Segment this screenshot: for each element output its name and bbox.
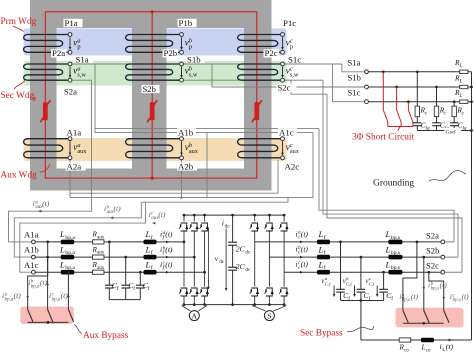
- DC bus top: [184, 214, 284, 216]
- under-core bus 2: [70, 197, 313, 199]
- terminal P2c: [281, 50, 285, 54]
- svg-text:Gnd: Gnd: [446, 130, 456, 136]
- IGBT A top 3: [201, 222, 210, 232]
- prm leader: [13, 26, 24, 32]
- sec bypass tap c: [427, 271, 430, 274]
- svg-text:3Φ Short Circuit: 3Φ Short Circuit: [352, 133, 414, 143]
- svg-text:A2a: A2a: [67, 162, 82, 172]
- S2 riser b: [323, 80, 458, 257]
- svg-text:L: L: [421, 343, 426, 351]
- secondary winding Sc: [238, 64, 283, 80]
- terminal A2b: [180, 156, 184, 160]
- svg-text:S1a: S1a: [348, 57, 361, 67]
- svg-text:2C: 2C: [236, 245, 246, 254]
- svg-text:(t): (t): [301, 245, 309, 254]
- svg-text:(t): (t): [165, 230, 173, 239]
- node A2b bundle: [180, 196, 182, 198]
- inductor L_bp,s b: [388, 255, 402, 260]
- inductor L_bp,s c: [388, 270, 402, 275]
- wire S1a feeder corner: [342, 64, 365, 72]
- capacitor C_f sec b: [360, 257, 362, 289]
- capacitor 2C_dc upper: [228, 241, 237, 243]
- resistor R_aux phase c: [92, 270, 104, 274]
- aux bus wire a: [35, 241, 184, 243]
- sec bypass tap a: [416, 241, 419, 244]
- bus label box S2a: [425, 232, 444, 240]
- current arrow i_c^c: [300, 271, 303, 274]
- svg-text:A1c: A1c: [279, 127, 294, 137]
- svg-text:A2b: A2b: [178, 162, 194, 172]
- svg-text:dc: dc: [225, 224, 231, 230]
- wire A-route line: [95, 64, 313, 132]
- svg-text:L: L: [459, 79, 463, 84]
- wire S-route line: [95, 128, 319, 130]
- label box P2a: [51, 49, 67, 57]
- aux bus wire c: [35, 271, 204, 273]
- svg-text:bp,a: bp,a: [52, 297, 61, 302]
- svg-text:L: L: [459, 94, 463, 99]
- flux arrow phase c: [254, 102, 259, 120]
- node A leg 3 top: [203, 214, 206, 217]
- svg-text:A1b: A1b: [24, 245, 39, 255]
- svg-text:(t): (t): [40, 278, 48, 287]
- node A phase c: [203, 271, 206, 274]
- svg-text:bp,s: bp,s: [453, 298, 461, 303]
- aux bypass leader: [75, 325, 83, 334]
- resistor R_L phase a: [460, 70, 468, 73]
- label box A2a: [66, 163, 86, 171]
- primary winding Pb: [126, 35, 182, 53]
- voltage arrow v_C,f^a: [333, 286, 335, 295]
- terminal S1c: [281, 62, 285, 66]
- inductor L_bp,a phase a: [61, 240, 75, 245]
- current arrow i_aux^b: [110, 216, 113, 219]
- svg-text:L: L: [59, 229, 65, 239]
- aux winding band (orange): [24, 138, 287, 161]
- secondary winding Sb: [126, 64, 182, 80]
- svg-text:(t): (t): [301, 229, 309, 238]
- svg-text:f: f: [324, 249, 326, 256]
- svg-text:s,w: s,w: [290, 71, 299, 78]
- label box A2c: [284, 163, 304, 171]
- svg-text:A1b: A1b: [178, 127, 194, 137]
- bus terminal S2a: [441, 240, 445, 244]
- svg-text:(t): (t): [114, 204, 122, 213]
- inductor L_bp,a phase b: [61, 255, 75, 260]
- bus terminal A1b: [32, 255, 36, 259]
- svg-text:bp,s: bp,s: [431, 287, 439, 292]
- aux winding Aa: [24, 139, 70, 158]
- sec leader: [14, 80, 25, 89]
- resistor R_c phase c: [453, 102, 455, 107]
- svg-text:S2a: S2a: [64, 86, 77, 96]
- wire S1b feeder step: [212, 64, 365, 87]
- svg-text:co: co: [404, 348, 409, 352]
- label box A1c: [278, 128, 297, 136]
- under-core bus 1: [70, 192, 278, 194]
- wire S2a descent: [72, 80, 92, 197]
- svg-text:v: v: [215, 254, 219, 263]
- flux node top: [151, 10, 154, 13]
- bypass switch sec a: [403, 311, 408, 323]
- svg-text:A2c: A2c: [285, 162, 300, 172]
- node S leg 3 top: [283, 214, 286, 217]
- current arrow i_aux^a: [38, 210, 41, 213]
- node A phase a: [183, 241, 186, 244]
- svg-text:Sec Bypass: Sec Bypass: [300, 329, 343, 339]
- bypass switch aux a: [28, 310, 33, 322]
- wire A1b down: [206, 132, 208, 197]
- grounding rail right edge: [471, 72, 473, 340]
- terminal A1c: [281, 137, 285, 141]
- terminal P1b: [180, 33, 184, 37]
- svg-text:S1b: S1b: [187, 54, 201, 64]
- converter A leg 3: [204, 215, 206, 305]
- svg-text:co: co: [426, 348, 431, 352]
- sec bypass rail: [403, 322, 444, 324]
- inductor L_bp,s a: [388, 240, 402, 245]
- capacitor C_lg phase a: [416, 117, 418, 123]
- node A leg 1 top: [183, 214, 186, 217]
- ground bottom wire: [361, 339, 472, 341]
- node S1b Rc tap: [435, 86, 438, 89]
- svg-text:S2b: S2b: [143, 84, 156, 94]
- converter S leg 1: [254, 215, 256, 305]
- svg-text:A1a: A1a: [67, 127, 82, 137]
- svg-text:p: p: [189, 43, 192, 50]
- node S1a short-circuit tap: [382, 70, 385, 73]
- v_dc arrow: [208, 228, 210, 287]
- bypass switch aux c: [68, 310, 73, 322]
- svg-text:f: f: [391, 295, 393, 302]
- node gnd-rail: [470, 129, 473, 132]
- inductor L_f sec a: [317, 240, 330, 245]
- flux path middle limb line: [151, 12, 153, 178]
- primary winding Pa: [24, 35, 70, 53]
- sec row wire c: [284, 271, 441, 273]
- current arrow i_f^c: [166, 271, 169, 274]
- svg-text:S1a: S1a: [76, 54, 89, 64]
- S2 riser c: [327, 94, 462, 272]
- svg-text:P2c: P2c: [265, 48, 278, 58]
- arrow i_L: [449, 339, 452, 342]
- current arrow i_c^a: [300, 241, 303, 244]
- svg-text:bp,a: bp,a: [65, 235, 75, 241]
- wire S2b to riser: [445, 256, 458, 258]
- voltage arrow v_C,f^b: [354, 286, 356, 295]
- svg-text:(t): (t): [165, 260, 173, 269]
- voltage arrow v_p^b: [181, 37, 183, 48]
- grounding leader squiggle: [429, 170, 466, 181]
- i_dc arrow: [225, 228, 227, 289]
- svg-text:aux: aux: [77, 148, 87, 155]
- bus terminal A1c: [32, 270, 36, 274]
- svg-text:bp,s: bp,s: [391, 235, 400, 241]
- bus label box S1c: [346, 88, 366, 96]
- bypass switch sec b: [424, 311, 429, 323]
- aux bypass highlight: [20, 307, 74, 325]
- node RL-rail c: [470, 100, 473, 103]
- sec row wire a: [255, 241, 441, 243]
- node sec bypass: [422, 322, 425, 325]
- aux leader: [40, 164, 50, 172]
- svg-text:L: L: [145, 259, 151, 269]
- terminal S2b: [180, 78, 184, 82]
- sec row wire b: [269, 256, 441, 258]
- flux arrow phase a: [43, 102, 48, 120]
- svg-text:P1b: P1b: [179, 18, 193, 28]
- svg-text:S1b: S1b: [348, 73, 361, 83]
- capacitor 2C_dc lower: [228, 266, 237, 268]
- node sec C_f rail: [360, 299, 363, 302]
- sec bypass leader: [347, 326, 374, 332]
- terminal P1a: [68, 33, 72, 37]
- label box S1b: [186, 56, 205, 64]
- wire A1c down: [312, 132, 314, 197]
- wire S2b to riser: [184, 79, 324, 81]
- svg-text:f: f: [133, 285, 135, 292]
- inductor L_bp,a phase c: [61, 270, 75, 275]
- svg-text:L: L: [145, 229, 151, 239]
- node vCf tap a: [339, 241, 342, 244]
- svg-text:bp,a: bp,a: [31, 284, 40, 289]
- ground return wire: [360, 301, 362, 341]
- svg-text:L: L: [385, 244, 391, 254]
- bus terminal S1b: [365, 85, 369, 89]
- node A leg 2 bottom: [193, 303, 196, 306]
- node aux bypass: [47, 321, 50, 324]
- resistor R_c phase b: [436, 87, 438, 106]
- bus label box S1a: [346, 59, 366, 67]
- voltage arrow v_aux^c: [282, 141, 284, 153]
- label box S2c: [277, 84, 297, 92]
- svg-text:Sec Wdg: Sec Wdg: [1, 91, 35, 101]
- terminal P1c: [281, 33, 285, 37]
- ground collector wire: [417, 130, 471, 132]
- aux winding Ac: [238, 139, 283, 158]
- svg-text:S2c: S2c: [278, 83, 291, 93]
- svg-text:L: L: [59, 259, 65, 269]
- voltage arrow v_p^c: [282, 37, 284, 48]
- voltage arrow v_p^a: [69, 37, 71, 48]
- short-circuit switch phase b: [396, 87, 398, 110]
- svg-text:(t): (t): [446, 342, 454, 351]
- resistor R_L phase c: [460, 100, 468, 103]
- primary winding Pc: [238, 35, 283, 53]
- S1 bus wire a: [365, 71, 472, 73]
- svg-text:S2a: S2a: [426, 230, 439, 240]
- IGBT S top 3: [280, 222, 289, 232]
- svg-text:L: L: [385, 259, 391, 269]
- svg-text:A1a: A1a: [24, 230, 39, 240]
- bypass switch aux b: [48, 310, 53, 322]
- capacitor C_lg phase b: [436, 117, 438, 123]
- label circled A: [189, 311, 199, 321]
- svg-text:aux: aux: [97, 251, 105, 256]
- aux bypass tap a: [46, 241, 49, 244]
- svg-text:bp,a: bp,a: [5, 297, 14, 302]
- transformer core (3-limb, gray): [30, 0, 272, 191]
- converter S leg 2: [268, 215, 270, 305]
- voltage arrow v_aux^a: [69, 141, 71, 153]
- svg-text:f: f: [324, 234, 326, 241]
- voltage arrow v_aux^b: [181, 141, 183, 153]
- arrow i_bp,a^b: [46, 284, 49, 287]
- current arrow i_f^b: [166, 256, 169, 259]
- IGBT S top 2: [265, 222, 274, 232]
- flux path (red rectangle): [45, 12, 256, 178]
- svg-text:p: p: [77, 43, 80, 50]
- inductor L_f sec b: [317, 255, 330, 260]
- node RL-rail b: [470, 86, 473, 89]
- wire A2a down: [69, 160, 71, 198]
- wire S2c to riser: [445, 271, 462, 273]
- short-circuit switch phase c: [407, 102, 409, 110]
- svg-text:S1c: S1c: [348, 87, 361, 97]
- bus label box A1c: [22, 261, 45, 269]
- node vCf tap c: [382, 271, 385, 274]
- node A leg 2 top: [193, 214, 196, 217]
- terminal A1b: [180, 137, 184, 141]
- arrow i_bp,a^c: [67, 296, 70, 299]
- svg-text:f: f: [324, 264, 326, 271]
- current arrow i_f^a: [166, 241, 169, 244]
- label circled S: [264, 311, 274, 321]
- wire S2c step: [285, 80, 328, 94]
- IGBT S bottom 2: [265, 287, 274, 297]
- wire S1 collector line (y=64): [72, 63, 342, 65]
- terminal S2a: [68, 78, 72, 82]
- bus label box A1b: [22, 246, 45, 254]
- svg-text:L: L: [318, 229, 324, 239]
- svg-text:f: f: [117, 285, 119, 292]
- S1 bus wire b: [365, 86, 472, 88]
- svg-text:Aux Bypass: Aux Bypass: [83, 331, 129, 341]
- label box P2b: [163, 49, 179, 57]
- svg-text:(t): (t): [165, 245, 173, 254]
- aux bus wire b: [35, 256, 194, 258]
- bus terminal A1a: [32, 240, 36, 244]
- aux bypass rail: [28, 321, 69, 323]
- svg-text:2C: 2C: [236, 262, 246, 271]
- node S leg 2 bottom: [268, 303, 271, 306]
- C_f sec common rail: [341, 300, 384, 302]
- svg-text:(t): (t): [61, 291, 69, 300]
- svg-text:S: S: [267, 312, 271, 321]
- converter A leg 1: [183, 215, 185, 305]
- C_f common rail (left): [109, 299, 140, 301]
- svg-text:(t): (t): [158, 210, 166, 219]
- node S1c Rc tap: [453, 100, 456, 103]
- node S1a Rc tap: [416, 70, 419, 73]
- node vCf tap b: [360, 256, 363, 259]
- svg-text:Aux Wdg: Aux Wdg: [1, 171, 38, 181]
- voltage arrow v_s,w^a: [69, 67, 71, 76]
- aux feeder wire c: [20, 202, 146, 272]
- label box S1c: [287, 56, 306, 64]
- resistor R_co: [399, 338, 411, 342]
- bus terminal S1c: [365, 100, 369, 104]
- svg-text:P2b: P2b: [164, 48, 178, 58]
- under-core bus 3: [141, 201, 288, 203]
- IGBT A bottom 1: [180, 287, 189, 297]
- arrow i_bp,s^b: [423, 287, 426, 290]
- svg-text:L: L: [145, 244, 151, 254]
- node C_f tap c: [139, 271, 142, 274]
- arrow i_bp,s^a: [402, 297, 405, 300]
- current arrow i_aux^c: [152, 222, 155, 225]
- svg-text:s,w: s,w: [189, 71, 198, 78]
- bus label box S1b: [346, 74, 366, 82]
- resistor R_aux phase b: [92, 255, 104, 259]
- sec bypass tap b: [422, 256, 425, 259]
- flux arrow phase b: [150, 102, 155, 120]
- voltage arrow v_C,f^c: [376, 286, 378, 295]
- pointer lines converter S: [252, 306, 265, 312]
- C_f capacitor b (left): [125, 257, 127, 285]
- svg-text:aux: aux: [97, 236, 105, 241]
- pointer lines converter A: [182, 306, 191, 312]
- terminal A1a: [68, 137, 72, 141]
- svg-text:p: p: [290, 43, 293, 50]
- bus label box S2b: [425, 247, 444, 255]
- IGBT S bottom 1: [251, 287, 260, 297]
- under-core stub bus3: [287, 198, 289, 203]
- svg-text:L: L: [318, 259, 324, 269]
- label box P1c: [282, 19, 301, 27]
- label box P1a: [64, 19, 83, 27]
- node S leg 3 bottom: [283, 303, 286, 306]
- aux winding Ab: [126, 139, 182, 158]
- inductor L_f phase a: [144, 240, 157, 245]
- label box S2a: [63, 87, 82, 95]
- label Gnd: [445, 128, 462, 135]
- bus terminal S2b: [441, 255, 445, 259]
- secondary winding Sa: [24, 64, 70, 80]
- svg-text:A1c: A1c: [24, 260, 39, 270]
- capacitor C_f sec c: [383, 272, 385, 289]
- secondary winding band (green): [24, 61, 287, 86]
- flux node bottom: [151, 177, 154, 180]
- svg-text:L: L: [318, 244, 324, 254]
- svg-text:L: L: [59, 244, 65, 254]
- node A leg 1 bottom: [183, 303, 186, 306]
- svg-text:S2c: S2c: [426, 261, 439, 271]
- svg-text:A: A: [192, 312, 198, 321]
- svg-text:(t): (t): [411, 292, 419, 301]
- aux feeder wire b: [14, 202, 141, 257]
- arrow i_bp,s^c: [442, 297, 445, 300]
- node DC link bottom: [231, 303, 234, 306]
- node A leg 3 bottom: [203, 303, 206, 306]
- sec bypass highlight: [396, 308, 464, 328]
- bypass switch sec c: [444, 311, 449, 323]
- IGBT A top 2: [190, 222, 199, 232]
- svg-text:f: f: [148, 285, 150, 292]
- wire S1c feeder corner: [333, 64, 365, 102]
- svg-text:f: f: [151, 264, 153, 271]
- IGBT S top 1: [251, 222, 260, 232]
- terminal S1a: [68, 62, 72, 66]
- svg-text:aux: aux: [97, 266, 105, 271]
- wire S2a to riser: [445, 241, 454, 243]
- converter A leg 2: [193, 215, 195, 305]
- svg-text:Prm Wdg: Prm Wdg: [1, 17, 37, 27]
- svg-text:bp,s: bp,s: [391, 250, 400, 256]
- terminal A2a: [68, 156, 72, 160]
- svg-text:f: f: [151, 249, 153, 256]
- bus label box A1a: [22, 231, 45, 239]
